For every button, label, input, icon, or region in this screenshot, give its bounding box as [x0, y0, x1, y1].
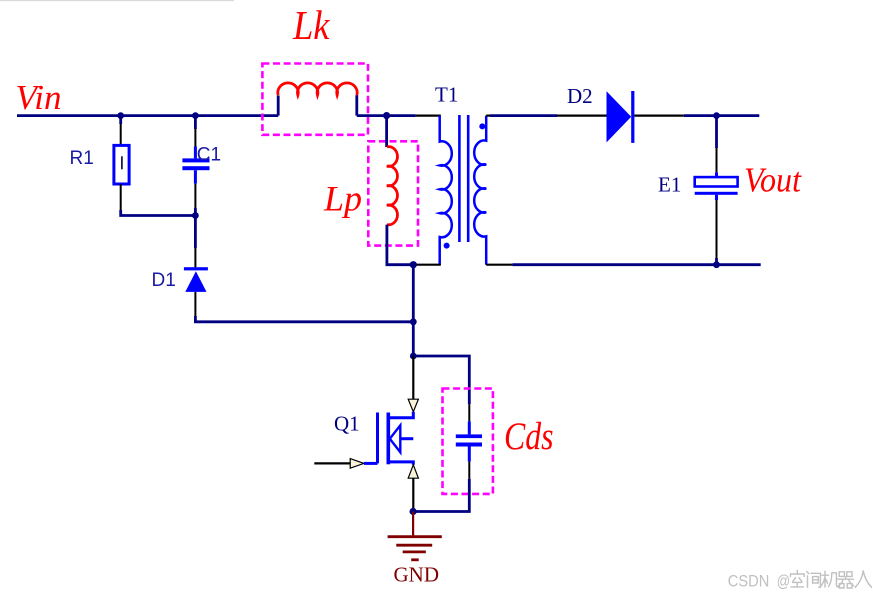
- svg-text:Lk: Lk: [292, 2, 331, 48]
- watermark CSDN: [728, 571, 791, 590]
- wire E1 top lead: [715, 116, 718, 148]
- svg-text:T1: T1: [435, 83, 458, 107]
- svg-text:Vin: Vin: [16, 78, 62, 117]
- svg-text:GND: GND: [394, 562, 440, 586]
- diode D2: [607, 91, 632, 142]
- wire main top rail navy: [17, 114, 278, 117]
- node junction E1 bottom: [713, 261, 720, 268]
- wire Lk left lead: [277, 96, 280, 116]
- node junction R1/C1 bottom: [192, 212, 199, 219]
- Cds dashed box: [443, 389, 493, 494]
- wire R1 bottom lead: [120, 184, 122, 210]
- wire junction to D1: [194, 216, 197, 249]
- svg-text:Vout: Vout: [744, 160, 802, 199]
- svg-text:Lp: Lp: [323, 179, 362, 219]
- svg-text:Q1: Q1: [334, 411, 360, 435]
- capacitor E1 (electrolytic): [695, 177, 738, 186]
- watermark CJK glyphs: [791, 571, 872, 589]
- wire C1 top lead: [194, 116, 197, 129]
- wire D2 cathode to output: [634, 114, 683, 116]
- wire D1 bottom lead: [194, 292, 196, 316]
- wire drain black: [412, 356, 414, 399]
- svg-text:E1: E1: [658, 172, 681, 196]
- wire Lp top lead: [385, 116, 388, 147]
- transformer T1 secondary winding: [474, 116, 486, 265]
- inductor Lk: [278, 83, 357, 95]
- node junction Lp bottom / T1 primary bottom: [410, 261, 417, 268]
- drain port arrow: [408, 399, 418, 412]
- node junction snubber return: [410, 318, 417, 325]
- T1 phase dot primary: [444, 243, 450, 249]
- capacitor Cds: [456, 434, 482, 438]
- node junction E1 top: [713, 112, 720, 119]
- inductor Lp: [387, 147, 398, 225]
- svg-text:R1: R1: [70, 148, 94, 169]
- diode D1: [184, 267, 208, 270]
- node junction source / Cds bottom: [410, 508, 417, 515]
- resistor R1: [114, 145, 129, 184]
- node junction at C1 top: [192, 112, 199, 119]
- svg-text:D2: D2: [567, 84, 593, 108]
- node junction Cds top: [410, 353, 417, 360]
- gate wire: [314, 462, 350, 464]
- source port arrow: [408, 465, 418, 478]
- wire black stub into T1 primary top: [416, 114, 441, 116]
- node junction at Lk right / Lp top: [383, 112, 390, 119]
- svg-text:C1: C1: [197, 145, 221, 166]
- wire top rail right of Lk: [357, 114, 416, 117]
- wire Lp bottom lead: [387, 225, 413, 265]
- Lp dashed box: [368, 141, 418, 245]
- T1 phase dot secondary: [479, 123, 485, 129]
- svg-text:CSDN: CSDN: [728, 571, 770, 590]
- gate port arrow: [350, 459, 364, 469]
- ground GND: [412, 512, 414, 537]
- Lk dashed box: [262, 64, 368, 135]
- wire Lk right lead: [355, 95, 358, 115]
- transformer T1 primary winding: [440, 116, 452, 265]
- wire T1 primary bottom black stub: [413, 264, 441, 266]
- node junction at R1 top: [117, 112, 124, 119]
- svg-text:D1: D1: [152, 270, 176, 291]
- capacitor C1: [182, 158, 209, 162]
- wire source black: [412, 478, 414, 509]
- wire output bottom rail: [486, 264, 512, 266]
- wire Cds bottom lead: [468, 447, 471, 462]
- transformer T1 core: [458, 115, 461, 242]
- wire C1 bottom lead: [194, 170, 197, 183]
- wire E1 bottom lead: [715, 195, 718, 200]
- wire junction to Cds top: [413, 356, 469, 404]
- wire secondary top to D2: [486, 114, 490, 116]
- wire R1 top lead: [119, 116, 122, 124]
- wire center vertical Lp junction to drain: [412, 265, 415, 356]
- svg-text:@: @: [777, 571, 791, 590]
- svg-text:Cds: Cds: [504, 415, 554, 458]
- transistor Q1: [390, 412, 414, 418]
